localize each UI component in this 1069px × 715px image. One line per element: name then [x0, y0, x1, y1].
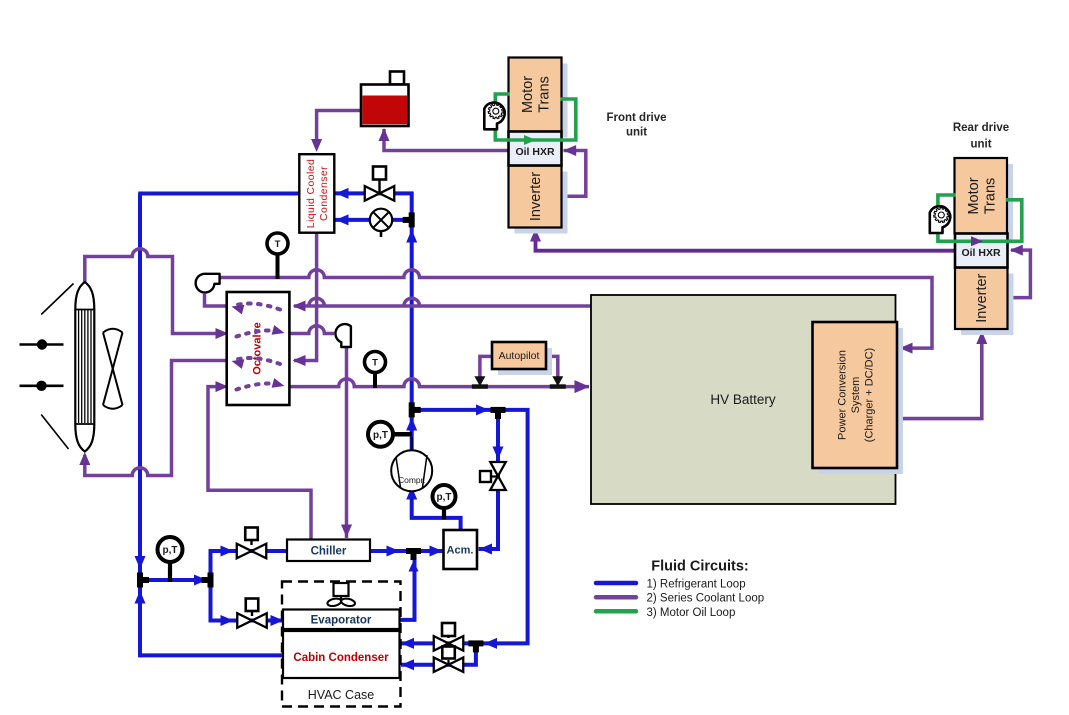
arrow green front oil hxr — [524, 135, 536, 145]
coolant reservoir cap — [390, 72, 404, 85]
svg-text:T: T — [372, 357, 378, 368]
wire pump 2 to chiller top — [345, 346, 349, 538]
legend refrigerant line — [596, 581, 636, 586]
octovalve internal path row4 — [237, 383, 280, 389]
svg-text:p,T: p,T — [437, 492, 452, 503]
autopilot left leg junction — [474, 376, 485, 386]
arrow right after chiller — [387, 546, 400, 557]
wire rear oil hxr right loop — [1007, 250, 1030, 298]
arrow up into reservoir bottom — [379, 128, 390, 141]
svg-text:unit: unit — [970, 139, 991, 151]
wire refrigerant main left vertical — [138, 194, 142, 658]
svg-text:HVAC Case: HVAC Case — [308, 688, 375, 702]
wire autopilot right leg — [546, 356, 558, 382]
louver line bottom — [41, 415, 68, 450]
wire front inverter feed — [536, 230, 956, 251]
wire chiller to octovalve row4 — [208, 387, 311, 539]
wire discharge horizontal — [410, 408, 530, 412]
wire front motor oil loop — [495, 94, 576, 140]
evaporator fan — [334, 583, 349, 596]
arrow left into PCS top right — [900, 343, 913, 354]
pump front drive oil — [484, 103, 504, 130]
arrow right to evaporator valve — [221, 615, 234, 626]
wire octovalve row1 to pump 1 — [205, 294, 227, 306]
svg-text:unit: unit — [626, 127, 647, 139]
svg-text:Motor: Motor — [520, 76, 536, 113]
Octovalve box — [227, 292, 290, 405]
svg-text:p,T: p,T — [163, 545, 178, 556]
wire PCS to rear inverter — [897, 332, 982, 419]
valve V4 evaporator inlet — [246, 599, 259, 612]
svg-text:Motor: Motor — [966, 177, 982, 214]
arrow down into LCC top — [311, 139, 322, 152]
arrow left into rear oil hxr right — [1010, 245, 1023, 256]
svg-text:(Charger + DC/DC): (Charger + DC/DC) — [863, 348, 875, 442]
svg-text:Fluid Circuits:: Fluid Circuits: — [651, 559, 748, 575]
wire pump 1 output to power conversion system — [220, 270, 933, 348]
arrow left into cabin condenser row1 — [401, 638, 414, 649]
arrow up into left T junction from below — [135, 591, 146, 604]
wire HV battery to octovalve row1 — [294, 298, 592, 306]
radiator — [75, 282, 94, 452]
legend coolant line — [596, 595, 636, 600]
wire right vertical down to cabin condenser valves — [478, 408, 528, 643]
arrow left into accumulator right — [479, 544, 492, 555]
octovalve internal path row2 — [237, 330, 280, 336]
wire liquid cooled condenser to octovalve row3 — [294, 234, 317, 361]
pump P1 octovalve row1 — [196, 274, 220, 293]
svg-text:Trans: Trans — [536, 76, 552, 113]
octovalve internal path row1 — [237, 304, 281, 310]
junction T-bar LCC circle valve — [409, 212, 415, 227]
arrow left into cc valve T junction — [484, 638, 497, 649]
sensor pT1 suction line — [168, 561, 172, 582]
arrow down to expansion valve — [493, 447, 504, 460]
arrow left into front oil hxr right — [563, 145, 576, 156]
front Motor Trans box — [509, 58, 562, 132]
sensor pT2 discharge — [392, 432, 412, 437]
airflow slat 2 — [20, 384, 64, 387]
Cabin Condenser box — [283, 631, 400, 678]
wire coolant octovalve row3 to radiator bottom — [85, 361, 227, 476]
wire reservoir to liquid cooled condenser — [317, 111, 362, 149]
wire evaporator out right — [399, 549, 415, 620]
junction T-bar left branch — [208, 573, 214, 588]
wire accumulator top to compressor — [412, 489, 461, 531]
rear Inverter box shadow — [961, 274, 1014, 336]
wire T-junction left horizontal — [140, 578, 211, 582]
arrow into octovalve row1 right — [293, 301, 306, 312]
wire coolant radiator top loop — [85, 249, 224, 334]
arrow big into HV battery left — [575, 380, 590, 393]
sensor T1 near condenser — [276, 253, 280, 279]
wire octovalve row4 to HV battery — [289, 379, 589, 387]
svg-text:Acm.: Acm. — [447, 544, 474, 556]
wire to evaporator valve — [209, 619, 284, 623]
HV Battery box — [591, 295, 896, 504]
arrow into LCC row2 — [336, 214, 349, 225]
wire compressor bottom black stem — [411, 489, 413, 500]
autopilot right leg junction — [552, 376, 563, 386]
svg-text:System: System — [850, 377, 862, 414]
pump rear drive oil — [930, 206, 950, 233]
svg-text:Autopilot: Autopilot — [499, 350, 540, 362]
arrow into LCC row1 — [336, 188, 349, 199]
svg-text:Front drive: Front drive — [606, 112, 666, 124]
HVAC Case dashed box — [282, 582, 401, 707]
junction T-bar cabin condenser valves — [468, 640, 483, 646]
wire expansion valve branch — [479, 408, 498, 549]
Autopilot box shadow — [498, 348, 552, 375]
svg-text:Trans: Trans — [982, 178, 998, 215]
arrow up into compressor bottom — [406, 487, 417, 500]
valve V7 cabin condenser row2 — [442, 647, 455, 659]
svg-text:Oil HXR: Oil HXR — [961, 247, 1001, 259]
wire compressor riser — [410, 412, 414, 452]
wire octovalve row2 to pump 2 — [289, 326, 334, 334]
front Inverter box shadow — [515, 172, 568, 234]
svg-text:Compr.: Compr. — [398, 475, 425, 485]
svg-text:Inverter: Inverter — [528, 172, 544, 221]
Power Conversion System box shadow — [819, 328, 904, 474]
valve V6 cabin condenser row1 — [442, 623, 455, 636]
Power Conversion System box — [813, 322, 898, 468]
legend motor oil line — [596, 609, 636, 614]
valve V1 expansion at LCC row1 — [365, 186, 380, 201]
wire left branch vertical to chiller/evaporator — [209, 549, 213, 622]
Evaporator box — [283, 610, 400, 630]
svg-text:Liquid Cooled: Liquid Cooled — [305, 159, 317, 228]
svg-text:T: T — [275, 239, 281, 250]
svg-text:p,T: p,T — [373, 430, 388, 441]
octovalve internal path row3 — [237, 358, 281, 364]
wire rear motor oil loop — [938, 195, 1022, 241]
Liquid Cooled Condenser box — [299, 154, 334, 233]
wire front oil hxr right loop — [562, 151, 586, 197]
wire condenser valve row 2 — [335, 218, 412, 222]
arrow up compressor discharge — [406, 418, 417, 431]
valve V2 shutoff circle-X at LCC row2 — [370, 209, 392, 231]
sensor pT3 accumulator — [442, 508, 446, 520]
wire condenser valve row 1 — [335, 191, 414, 195]
arrow up into radiator bottom — [79, 452, 90, 465]
svg-text:2) Series Coolant Loop: 2) Series Coolant Loop — [647, 593, 765, 605]
svg-text:Oil HXR: Oil HXR — [515, 146, 555, 158]
Chiller box — [287, 540, 370, 562]
svg-text:HV Battery: HV Battery — [710, 392, 776, 407]
junction T-bar main left — [137, 573, 143, 588]
rear Oil HXR box — [955, 234, 1008, 268]
svg-text:Rear drive: Rear drive — [953, 122, 1009, 134]
arrow down into chiller top — [341, 525, 352, 538]
junction T-bar chiller-evap merge — [406, 548, 421, 554]
Acm. accumulator box — [444, 530, 478, 569]
rear Inverter box — [955, 268, 1008, 330]
wire front oil hxr to reservoir — [384, 129, 509, 151]
arrow right into evaporator — [271, 615, 284, 626]
wire refrigerant top-left horizontal to liquid cooled condenser — [138, 192, 300, 196]
compressor Compr. circle — [391, 450, 432, 491]
svg-text:1) Refrigerant Loop: 1) Refrigerant Loop — [647, 579, 746, 591]
valve V3 chiller inlet — [245, 528, 258, 541]
arrow up from evaporator to junction — [409, 561, 419, 572]
wire compressor top black stem — [411, 437, 413, 453]
arrow right on discharge horizontal — [476, 404, 489, 415]
arrow up riser below LCC valves — [406, 230, 417, 243]
arrow left into cabin condenser row2 — [401, 659, 414, 670]
label Octovalve — [251, 322, 263, 375]
arrow right to chiller valve — [221, 546, 234, 557]
wire cabin condenser valve row 2 — [401, 645, 476, 665]
svg-text:Evaporator: Evaporator — [311, 615, 372, 627]
rear Motor Trans box — [955, 158, 1008, 234]
svg-text:3) Motor Oil Loop: 3) Motor Oil Loop — [647, 607, 736, 619]
front Oil HXR box — [509, 132, 562, 166]
wire refrigerant bottom horizontal from cabin condenser — [138, 653, 284, 657]
rear Motor Trans box shadow — [961, 164, 1014, 240]
svg-text:Inverter: Inverter — [974, 273, 990, 322]
svg-text:Cabin Condenser: Cabin Condenser — [293, 652, 389, 664]
coolant reservoir tank — [361, 85, 409, 127]
radiator fan blade — [103, 333, 123, 406]
arrow down into left T junction — [135, 556, 146, 569]
svg-text:Chiller: Chiller — [311, 546, 347, 558]
arrow into octovalve row2 — [216, 328, 229, 339]
valve V5 expansion vertical — [490, 462, 506, 476]
wire riser to condenser valves — [410, 192, 414, 412]
front Inverter box — [509, 166, 562, 228]
louver line top — [41, 284, 73, 315]
junction T-bar expansion valve branch — [491, 407, 506, 413]
arrow purple on rear oil hxr green line — [971, 236, 983, 246]
arrow right into left branch junction — [194, 575, 207, 586]
front Motor Trans box shadow — [515, 64, 568, 138]
wire chiller out to junction — [369, 549, 445, 553]
airflow slat 1 — [20, 343, 64, 346]
wire cabin condenser valve row 1 — [401, 641, 476, 645]
sensor T2 near octovalve — [373, 372, 377, 389]
junction T-bar compressor discharge — [409, 402, 415, 417]
Autopilot box — [492, 342, 546, 369]
arrow into octovalve row4 left — [216, 381, 229, 392]
arrow right into accumulator left — [430, 546, 443, 557]
arrow up into rear inverter bottom — [976, 331, 987, 344]
svg-text:Power Conversion: Power Conversion — [836, 350, 848, 440]
wire autopilot left leg — [480, 356, 492, 382]
arrow up into front inverter bottom — [530, 229, 541, 242]
svg-text:Condenser: Condenser — [318, 166, 330, 221]
arrow into octovalve row3 right — [293, 355, 306, 366]
pump P2 octovalve row2 — [335, 324, 350, 347]
wire to chiller valve — [209, 549, 288, 553]
